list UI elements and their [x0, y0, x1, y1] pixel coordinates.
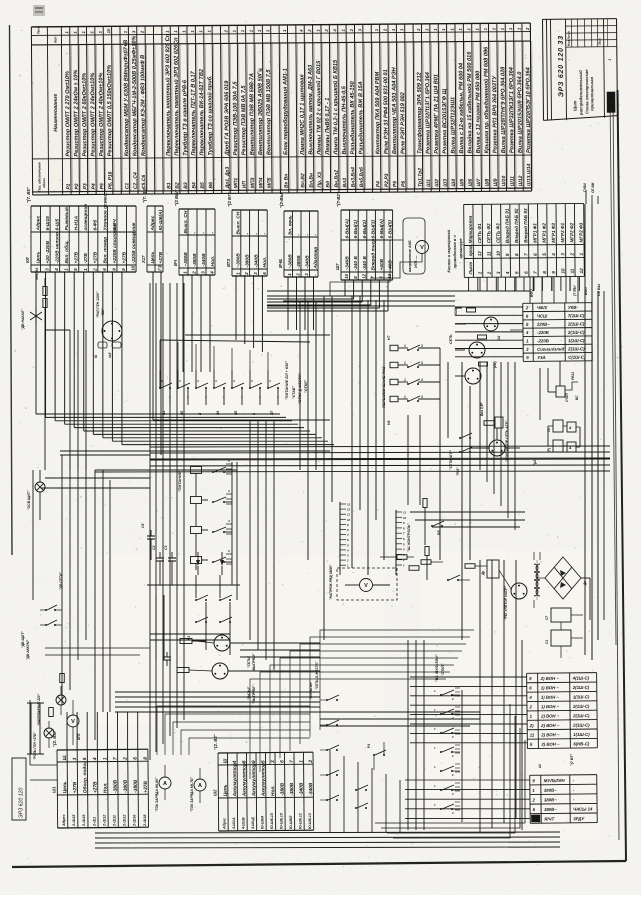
- svg-text:С1: С1: [545, 640, 549, 644]
- resistor R near lamp 1: [467, 308, 476, 312]
- svg-text:2: 2: [451, 811, 454, 815]
- svg-text:V: V: [364, 583, 368, 589]
- voltmeter V2: [360, 579, 373, 592]
- svg-text:2) ВОН ~: 2) ВОН ~: [540, 723, 560, 728]
- svg-text:+27В: +27В: [93, 251, 99, 263]
- svg-text:Разъединитель ВК 45-150: Разъединитель ВК 45-150: [350, 80, 357, 154]
- resistor Pr1: [49, 708, 54, 717]
- svg-text:2: 2: [451, 697, 454, 701]
- connector ВТЗ table: [226, 191, 268, 276]
- indicator connector lamp 2: [469, 342, 485, 358]
- main switch DV SHCHIT: [45, 609, 47, 611]
- voltmeter IP1: [416, 241, 429, 254]
- svg-text:Переключатель П2Т-1Т В 0,17: Переключатель П2Т-1Т В 0,17: [191, 70, 198, 155]
- svg-text:А: А: [198, 783, 202, 789]
- BOM row Ш1: [430, 24, 431, 192]
- svg-text:4: 4: [258, 395, 261, 399]
- svg-text:Ш: Ш: [538, 764, 542, 768]
- svg-text:13: 13: [347, 503, 351, 507]
- BOM row Ш2: [438, 24, 439, 192]
- BOM row Ш12: [522, 23, 523, 191]
- svg-text:Дроб ГА РО2В ЭРА 606 019: Дроб ГА РО2В ЭРА 606 019: [223, 80, 231, 157]
- svg-text:Резистор ОМЛТ 2 24кОм±10%: Резистор ОМЛТ 2 24кОм±10%: [90, 73, 97, 157]
- svg-text:Резистор ОМЛТ 2 40кОм±10%: Резистор ОМЛТ 2 40кОм±10%: [98, 73, 105, 157]
- svg-text:(7 ВЫ: (7 ВЫ: [573, 285, 577, 296]
- capacitor C6: [150, 530, 152, 536]
- contactor circle: [489, 440, 505, 456]
- svg-text:Крышка пр. объединенной РМ 60: Крышка пр. объединенной РМ 608 096: [482, 46, 490, 153]
- resistor R near lamp 3: [479, 362, 488, 366]
- svg-text:Р6, Р16: Р6, Р16: [108, 171, 114, 189]
- svg-text:Рыжевыв: Рыжевыв: [64, 207, 70, 230]
- title block frame: [543, 19, 618, 121]
- svg-text:"(2 ВЫ": "(2 ВЫ": [174, 189, 179, 206]
- svg-text:6-Ш5: 6-Ш5: [55, 219, 61, 231]
- svg-text:(Р): (Р): [547, 448, 551, 452]
- bus verticals bottom mid: [329, 750, 331, 833]
- svg-text:Адаптер: Адаптер: [313, 247, 319, 270]
- svg-text:+20 -220В: +20 -220В: [45, 240, 51, 263]
- wire left edge runs: [32, 470, 34, 600]
- bus horizontal group y445: [150, 446, 610, 447]
- svg-text:Эл. печь: Эл. печь: [287, 215, 293, 235]
- svg-text:Переключатель ВК-14-02Т ТВ2: Переключатель ВК-14-02Т ТВ2: [199, 68, 206, 156]
- svg-text:6-ВЫ(А): 6-ВЫ(А): [345, 219, 351, 239]
- svg-text:Конденсатор МБГЧ-1М-2-500В 0,2: Конденсатор МБГЧ-1М-2-500В 0,25мФ±10%: [132, 36, 139, 157]
- BOM row Ш10: [505, 23, 506, 191]
- svg-text:А: А: [163, 781, 167, 787]
- svg-text:Ш7: Ш7: [335, 263, 340, 270]
- svg-text:2-Ш11: 2-Ш11: [113, 815, 117, 827]
- svg-text:3РДУ: 3РДУ: [573, 816, 585, 821]
- switch V6: [431, 525, 433, 527]
- svg-text:УКВ-: УКВ-: [568, 305, 579, 310]
- wires right of combs: [424, 508, 426, 545]
- svg-text:Выключатель автом. ДМ-3 А63: Выключатель автом. ДМ-3 А63: [308, 64, 315, 155]
- svg-text:-380В: -380В: [245, 254, 251, 268]
- svg-text:5: 5: [82, 757, 88, 760]
- svg-text:напряжение АКБ: напряжение АКБ: [408, 240, 412, 272]
- svg-text:7(1Ш-С): 7(1Ш-С): [568, 313, 585, 318]
- vertical feeds PITANIE: [231, 462, 233, 585]
- svg-text:Пр. Х3: Пр. Х3: [317, 172, 323, 188]
- BOM row Ш4: [455, 24, 456, 192]
- svg-text:Вк Вн: Вк Вн: [283, 174, 289, 188]
- svg-text:2): 2): [529, 723, 534, 728]
- svg-text:Аккумулятор: Аккумулятор: [232, 763, 238, 797]
- regulator connector circle: [511, 583, 527, 599]
- svg-text:Р3: Р3: [83, 183, 89, 189]
- svg-text:2: 2: [296, 273, 301, 277]
- svg-text:11: 11: [403, 511, 406, 515]
- svg-text:Розетка ШР32ПК3ЭГ1 бРО.364: Розетка ШР32ПК3ЭГ1 бРО.364: [508, 66, 516, 153]
- resistor Pr small: [60, 674, 65, 683]
- svg-text:-380В: -380В: [296, 255, 302, 269]
- svg-text:Вн,Вл2: Вн,Вл2: [334, 170, 340, 188]
- wire K1 area density: [155, 595, 157, 660]
- contact P4: [373, 754, 375, 756]
- svg-text:Цепь: Цепь: [150, 251, 156, 263]
- svg-text:-380В: -380В: [289, 782, 295, 796]
- connector Ш1 table: [51, 728, 150, 828]
- svg-text:3: 3: [421, 395, 423, 399]
- svg-text:11: 11: [530, 732, 535, 737]
- svg-text:2-Ш12: 2-Ш12: [123, 814, 127, 827]
- svg-text:К1: К1: [187, 636, 191, 640]
- svg-text:Вкл. общ.: Вкл. общ.: [63, 240, 70, 263]
- svg-text:Нол.: Нол.: [210, 256, 216, 267]
- ammeter IA1: [159, 777, 171, 789]
- resistor K3: [177, 668, 189, 673]
- svg-text:"(7 ВТ": "(7 ВТ": [570, 754, 574, 766]
- svg-text:2: 2: [487, 271, 492, 275]
- svg-text:11: 11: [570, 268, 575, 273]
- contact K2 pair: [355, 789, 357, 791]
- wire right table down: [510, 329, 523, 331]
- svg-text:Ш8: Ш8: [484, 178, 490, 186]
- svg-text:Адрес: Адрес: [223, 818, 227, 830]
- svg-text:Ш3: Ш3: [443, 179, 449, 187]
- svg-text:Маркировка: Маркировка: [468, 215, 473, 243]
- BOM row Ш3: [447, 24, 448, 192]
- svg-text:10: 10: [344, 273, 349, 278]
- bus verticals center: [249, 420, 251, 640]
- svg-text:Ш.: Ш.: [62, 754, 68, 760]
- svg-text:-340 В: -340 В: [362, 256, 368, 271]
- svg-text:Вперед ПАБ 92: Вперед ПАБ 92: [514, 208, 519, 243]
- svg-text:6-ВЫ(2): 6-ВЫ(2): [362, 220, 368, 239]
- connector Ш2 table: [212, 732, 315, 831]
- svg-text:Кол: Кол: [53, 36, 57, 43]
- svg-text:2(1Ш-С): 2(1Ш-С): [572, 722, 590, 727]
- svg-text:Вл,В2: Вл,В2: [300, 173, 306, 188]
- resistor row R5: [397, 555, 407, 560]
- svg-text:МП5: МП5: [267, 177, 273, 188]
- svg-text:В3: В3: [183, 182, 189, 189]
- svg-text:+220В столовая: +220В столовая: [112, 224, 118, 264]
- svg-text:Ш7: Ш7: [476, 179, 482, 187]
- wire from X17 down: [152, 272, 154, 420]
- wires contactor: [496, 428, 498, 440]
- svg-text:"ПИТАНИЕ": "ПИТАНИЕ": [178, 470, 182, 492]
- svg-text:Др: Др: [481, 571, 485, 576]
- svg-text:2(1Ш-С): 2(1Ш-С): [567, 330, 585, 335]
- capacitor C4: [166, 652, 168, 657]
- svg-text:Леммы ПнВб 0,17 - 1: Леммы ПнВб 0,17 - 1: [324, 98, 331, 156]
- BOM row Р4: [95, 26, 96, 194]
- round connector RA gen: [102, 321, 122, 341]
- BOM row Пр. Х3: [321, 25, 322, 193]
- svg-text:Нол.: Нол.: [270, 785, 276, 796]
- svg-text:Фн1, 64: Фн1, 64: [35, 268, 39, 280]
- capacitor box C1: [551, 630, 571, 646]
- svg-text:11: 11: [347, 513, 350, 517]
- svg-text:1: 1: [404, 395, 406, 399]
- svg-text:Вилка ШР2015ЭШ9 бРО.364.0: Вилка ШР2015ЭШ9 бРО.364.0: [516, 71, 524, 153]
- svg-text:12: 12: [347, 508, 351, 512]
- wires Sh7 pins down: [344, 280, 346, 296]
- svg-text:Ш12: Ш12: [518, 175, 524, 186]
- svg-text:Сигнал/злнд: Сигнал/злнд: [537, 346, 564, 351]
- component list table (BOM): [31, 21, 533, 195]
- svg-text:С1: С1: [124, 183, 130, 190]
- svg-text:У3А: У3А: [537, 355, 545, 360]
- wire top right corner: [585, 190, 587, 204]
- svg-text:-380В: -380В: [113, 779, 119, 793]
- wire top corner stubs: [591, 195, 593, 204]
- svg-text:Вл3: Вл3: [342, 178, 348, 188]
- svg-text:"ПИТАНИЕ БЛ + 630": "ПИТАНИЕ БЛ + 630": [285, 361, 289, 400]
- bus line y340: [160, 340, 310, 342]
- connector ВЧБ table: [278, 190, 319, 277]
- svg-text:Ю-Ш6Л: Ю-Ш6Л: [289, 815, 293, 829]
- svg-text:4: 4: [204, 395, 207, 399]
- svg-text:2) ВОН ~: 2) ВОН ~: [540, 732, 560, 737]
- wires caps: [560, 622, 562, 630]
- svg-text:11: 11: [486, 251, 491, 256]
- bus from right table to transformer: [559, 361, 561, 386]
- title block small grid cells: [566, 25, 617, 27]
- svg-text:"ОСВ ЩИТ": "ОСВ ЩИТ": [27, 490, 31, 510]
- svg-text:2) ВОН ~: 2) ВОН ~: [540, 742, 560, 747]
- connector Ш7 table: [335, 191, 394, 280]
- fuse holder N5: [112, 342, 121, 348]
- wire bus from XP1 down: [35, 272, 37, 414]
- svg-text:12: 12: [477, 251, 482, 257]
- svg-text:2: 2: [192, 271, 197, 275]
- svg-text:"ДВ АККУМ": "ДВ АККУМ": [26, 639, 30, 660]
- svg-text:Вилка ШР32П12ЭШ1: Вилка ШР32П12ЭШ1: [450, 97, 456, 154]
- svg-text:арматуре: арматуре: [458, 238, 463, 259]
- BOM row Вк Вн: [287, 25, 288, 193]
- svg-text:СЕ ВМ: СЕ ВМ: [591, 182, 595, 193]
- svg-text:"ФАЗЫ": "ФАЗЫ": [247, 686, 251, 700]
- svg-text:+27В: +27В: [143, 781, 149, 793]
- svg-text:-340В: -340В: [299, 782, 305, 796]
- svg-text:ЭРЗ 620 120 33: ЭРЗ 620 120 33: [558, 35, 566, 97]
- svg-text:Уличное освещ.: Уличное освещ.: [102, 192, 108, 230]
- svg-text:Р2,Р3: Р2,Р3: [384, 173, 390, 187]
- bus lines under tables: [267, 290, 530, 292]
- svg-text:Вперед ПАБ 91: Вперед ПАБ 91: [505, 208, 510, 243]
- svg-text:Аккумулятор: Аккумулятор: [260, 763, 266, 797]
- wires into right table: [455, 306, 523, 308]
- svg-text:ОТКЛ: ОТКЛ: [565, 393, 569, 402]
- svg-text:"(2. В2": "(2. В2": [213, 733, 218, 750]
- voltmeter selector dashed box: [337, 568, 397, 600]
- svg-text:Ш: Ш: [222, 758, 228, 763]
- svg-text:МГР2 Ф2: МГР2 Ф2: [569, 222, 574, 242]
- svg-text:В4: В4: [191, 182, 197, 189]
- relay contactor boxes and contacts: [191, 467, 202, 474]
- BOM empty row: [279, 25, 280, 193]
- svg-text:Резистор ОМЛТ 2 60кОм±10%: Резистор ОМЛТ 2 60кОм±10%: [82, 73, 89, 157]
- BOM row С5,С6: [145, 26, 146, 194]
- wire vertical x522: [521, 640, 523, 830]
- svg-text:Я5: Я5: [234, 411, 238, 416]
- fuse box A1: [567, 422, 576, 432]
- wire bundle right verticals: [479, 362, 481, 470]
- bus horizontal group y470: [95, 469, 237, 471]
- svg-text:2: 2: [92, 268, 97, 272]
- svg-text:10: 10: [347, 518, 351, 522]
- svg-text:1: 1: [102, 757, 108, 760]
- svg-text:Розетка ШР20П5ЭГ10 бРО.364: Розетка ШР20П5ЭГ10 бРО.364: [524, 66, 532, 153]
- svg-text:Вкл 0,5Р: Вкл 0,5Р: [480, 402, 484, 416]
- svg-text:1) ВОН ~: 1) ВОН ~: [541, 695, 560, 700]
- svg-text:Выкл. СН: Выкл. СН: [183, 210, 189, 233]
- svg-text:2: 2: [346, 559, 349, 563]
- BOM row МП5: [271, 25, 272, 193]
- svg-text:2) ВОН ~: 2) ВОН ~: [540, 713, 560, 718]
- svg-text:Тумблер ТЗ в канале рРВ-6: Тумблер ТЗ в канале рРВ-6: [181, 79, 189, 156]
- svg-text:МУЛЬТИН: МУЛЬТИН: [544, 778, 566, 783]
- drawing frame right outer border: [618, 90, 627, 861]
- svg-text:-340В: -340В: [304, 255, 310, 269]
- wires ammeters: [164, 765, 166, 777]
- svg-text:СЕТЬ Ф1: СЕТЬ Ф1: [477, 223, 482, 243]
- svg-text:С3: С3: [164, 546, 168, 550]
- wire bus right verticals tall: [584, 204, 586, 655]
- svg-text:Розетка РЛ1 ВР0 364 003ТУ: Розетка РЛ1 ВР0 364 003ТУ: [492, 75, 499, 154]
- svg-text:Резистор ОМЛТ 0,5 150кОм±10%: Резистор ОМЛТ 0,5 150кОм±10%: [107, 65, 114, 157]
- svg-text:"СЕТЬ-О-ЖЕСТК": "СЕТЬ-О-ЖЕСТК": [315, 661, 319, 690]
- BOM row Вн5,Вл6: [363, 24, 364, 192]
- svg-text:МГР1 Ф2: МГР1 Ф2: [542, 223, 547, 243]
- svg-text:Р4: Р4: [376, 181, 382, 187]
- svg-text:-27В: -27В: [83, 253, 89, 264]
- svg-text:4: 4: [276, 395, 279, 399]
- svg-text:проводников в ч: проводников в ч: [452, 235, 457, 269]
- BOM empty row: [371, 24, 372, 192]
- svg-text:Цепь: Цепь: [35, 251, 41, 263]
- wires regulator row: [380, 556, 397, 558]
- svg-text:6-Ш15: 6-Ш15: [45, 216, 51, 231]
- svg-text:С2: С2: [152, 546, 156, 550]
- svg-text:ВС: ВС: [575, 395, 579, 400]
- resistor VN: [425, 547, 429, 556]
- svg-text:С2...С4: С2...С4: [133, 172, 139, 189]
- svg-text:Реле РЭН 33 РФ4 500 831-00 01: Реле РЭН 33 РФ4 500 831-00 01: [383, 69, 390, 154]
- phase switch wires: [398, 347, 408, 349]
- svg-text:1) ВОН ~: 1) ВОН ~: [541, 704, 560, 709]
- svg-text:Ш5: Ш5: [459, 179, 465, 187]
- wires left of bottom table Sh1: [30, 764, 57, 766]
- svg-text:1: 1: [608, 59, 612, 61]
- svg-text:2: 2: [308, 760, 314, 764]
- BOM row Вл,Вн: [313, 25, 314, 193]
- svg-text:Конденсатор КЭ-2М - ФВЗ 100мк: Конденсатор КЭ-2М - ФВЗ 100мкФ В: [140, 55, 147, 156]
- svg-text:Тумблер ТЗ со шкалой приб.: Тумблер ТЗ со шкалой приб.: [206, 75, 214, 156]
- svg-text:2(1Ш-С): 2(1Ш-С): [572, 713, 590, 718]
- svg-text:Ю-Ш6.15: Ю-Ш6.15: [270, 812, 274, 829]
- svg-text:Ш4: Ш4: [451, 179, 457, 187]
- svg-text:ВЧБ: ВЧБ: [278, 259, 283, 268]
- BOM empty row: [120, 26, 121, 194]
- svg-text:Контактор ПКА 509 А04 РВМ: Контактор ПКА 509 А04 РВМ: [375, 71, 382, 154]
- svg-text:ЧАСЫ 14: ЧАСЫ 14: [573, 806, 593, 811]
- resistor K5: [180, 639, 192, 644]
- wire lamp line left: [41, 487, 150, 489]
- BOM row Р1: [70, 27, 71, 195]
- svg-text:+27В: +27В: [74, 251, 80, 263]
- svg-text:2-Ш15: 2-Ш15: [72, 814, 76, 827]
- title block filled cell: [607, 92, 616, 113]
- BOM row Р5: [103, 26, 104, 194]
- svg-text:Ш2: Ш2: [434, 179, 440, 187]
- wire RB11 left: [548, 391, 556, 393]
- BOM row Р3: [86, 27, 87, 195]
- svg-text:"(2-ВЫ": "(2-ВЫ": [279, 190, 284, 208]
- svg-text:Ю-Ш6.12: Ю-Ш6.12: [299, 812, 303, 829]
- svg-text:ЧФ/Х: ЧФ/Х: [537, 305, 549, 310]
- connector КЛ table: [25, 186, 137, 272]
- contacts K1 upper: [197, 552, 199, 562]
- bus verticals into Sh1 table: [66, 712, 68, 750]
- transformer Tr2 windings: [534, 564, 538, 572]
- wires comb to box: [339, 570, 341, 575]
- svg-text:КЛ: КЛ: [25, 257, 30, 263]
- wires K1: [195, 575, 197, 598]
- svg-text:1(1Ш-С): 1(1Ш-С): [573, 732, 590, 737]
- phase switch contacts: [407, 349, 409, 351]
- BOM row Р2,Р3: [388, 24, 389, 192]
- fuse holder Yu: [98, 342, 107, 348]
- BOM row Вд: [329, 25, 330, 193]
- svg-text:Нол.: Нол.: [103, 782, 109, 793]
- svg-text:"ВЫПРЯМ": "ВЫПРЯМ": [252, 653, 256, 672]
- svg-text:4-Ш1А: 4-Ш1А: [232, 817, 236, 830]
- svg-text:"В2. МУЛЬТИН": "В2. МУЛЬТИН": [435, 654, 439, 682]
- svg-text:Ю-Ш6(А): Ю-Ш6(А): [158, 209, 164, 230]
- svg-text:Тр1,Тр2: Тр1,Тр2: [417, 168, 423, 187]
- wire horizontals lower-left: [45, 647, 150, 649]
- rectifier bridge: [545, 557, 581, 599]
- svg-text:2-Ш16: 2-Ш16: [133, 814, 137, 827]
- svg-text:Ю-Ш6.15: Ю-Ш6.15: [280, 812, 284, 829]
- svg-text:10: 10: [403, 516, 407, 520]
- svg-text:Реле РЭП РЭН 519 002: Реле РЭП РЭН 519 002: [400, 91, 406, 154]
- svg-text:Резистор ОМЛТ 2 24кОм ± 10%: Резистор ОМЛТ 2 24кОм ± 10%: [73, 70, 80, 157]
- svg-text:Вн3,Вл4: Вн3,Вл4: [350, 167, 356, 188]
- BOM empty row: [220, 25, 221, 193]
- svg-text:V: V: [420, 245, 424, 251]
- svg-text:Ш13,Ш14: Ш13,Ш14: [526, 163, 532, 186]
- svg-text:ИП: ИП: [242, 181, 248, 189]
- svg-text:Розетка ВС2015ЭГФ Щ: Розетка ВС2015ЭГФ Щ: [442, 88, 449, 153]
- round connector FAZY VYPRYAM: [212, 663, 228, 679]
- BOM row В1: [170, 26, 171, 194]
- rotary switch B2 column: [440, 694, 442, 696]
- svg-text:6(НВ-С): 6(НВ-С): [573, 741, 590, 746]
- terminal comb strip 1: [339, 502, 341, 570]
- svg-text:Лист: Лист: [468, 262, 473, 276]
- lamp rol gen: [44, 728, 54, 738]
- svg-text:СЕТЬ Ф3: СЕТЬ Ф3: [495, 223, 500, 243]
- wire stubs under marking table: [468, 277, 470, 291]
- lamp napryazhenie 220: [56, 695, 66, 705]
- marking table col wires: [479, 277, 481, 291]
- svg-text:С(1Ш-С): С(1Ш-С): [568, 355, 586, 360]
- svg-text:Р4: Р4: [91, 183, 97, 189]
- wire from phase block down: [407, 415, 409, 505]
- svg-text:2-Ш1: 2-Ш1: [92, 817, 96, 827]
- svg-text:"(2. ВЫ": "(2. ВЫ": [52, 728, 57, 747]
- svg-text:Вентилятор ЭВ025 А50В 50Гц: Вентилятор ЭВ025 А50В 50Гц: [257, 68, 264, 155]
- svg-text:4: 4: [227, 489, 230, 493]
- svg-text:Поз. обозначение: Поз. обозначение: [37, 162, 41, 192]
- BOM row Ш8: [488, 23, 489, 191]
